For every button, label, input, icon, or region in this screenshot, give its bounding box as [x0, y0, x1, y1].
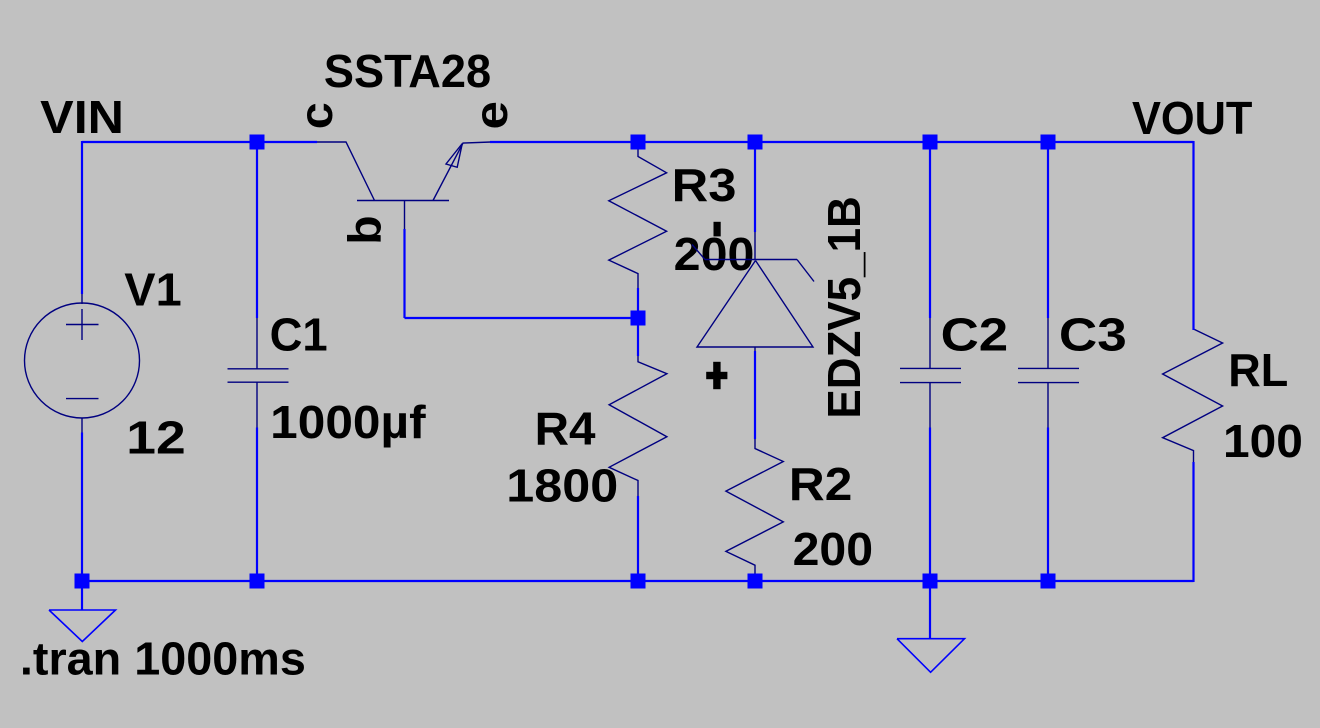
- svg-text:EDZV5_1B: EDZV5_1B: [818, 196, 870, 418]
- svg-text:.tran 1000ms: .tran 1000ms: [20, 633, 306, 685]
- svg-text:RL: RL: [1228, 344, 1288, 396]
- svg-text:R2: R2: [789, 458, 852, 510]
- svg-text:b: b: [339, 215, 391, 244]
- svg-text:C3: C3: [1059, 309, 1127, 361]
- svg-text:SSTA28: SSTA28: [324, 45, 491, 97]
- svg-text:100: 100: [1223, 415, 1303, 467]
- svg-text:C1: C1: [270, 309, 328, 361]
- svg-text:1000µf: 1000µf: [270, 396, 426, 448]
- svg-text:VIN: VIN: [40, 91, 124, 143]
- svg-text:12: 12: [126, 412, 185, 464]
- svg-text:R4: R4: [535, 403, 596, 455]
- svg-text:C2: C2: [941, 309, 1009, 361]
- svg-text:V1: V1: [124, 264, 181, 316]
- svg-text:c: c: [290, 102, 342, 129]
- svg-text:R3: R3: [672, 159, 737, 211]
- svg-text:e: e: [465, 101, 517, 130]
- svg-text:VOUT: VOUT: [1132, 92, 1252, 144]
- svg-text:1800: 1800: [506, 460, 618, 512]
- svg-text:200: 200: [793, 523, 874, 575]
